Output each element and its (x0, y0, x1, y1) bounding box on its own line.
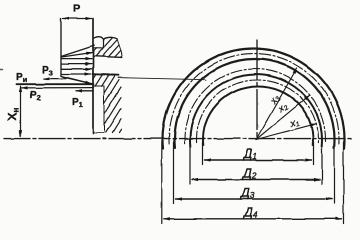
ring circle D2 (heavy) (190, 74, 322, 146)
ring mean circle 1 (dash-dot) (196, 80, 318, 143)
svg-text:Pи: Pи (16, 72, 28, 84)
svg-text:Д4: Д4 (242, 206, 258, 220)
extension line D3 left (173, 142, 175, 204)
lower wall ledge top edge (93, 74, 119, 75)
upper wall block top edge (103, 37, 117, 39)
horizontal centerline (dash-dot) (4, 138, 352, 140)
svg-text:Xн: Xн (6, 107, 21, 120)
pressure diagram upper envelope (61, 46, 94, 57)
dimension line Xn (20, 86, 22, 136)
ring circle D3 (heavy) (175, 59, 335, 148)
svg-text:Д3: Д3 (239, 186, 255, 200)
pressure arrow 5 (62, 73, 91, 75)
svg-text:Д2: Д2 (241, 167, 257, 181)
level line from wall to rings (118, 78, 206, 80)
force arrow P3 (44, 78, 67, 80)
ring circle D1 (inner, heavy) (203, 87, 313, 146)
radius arrow x2 (256, 95, 310, 139)
radius arrow x3 (256, 68, 297, 140)
extension line D2 right (321, 142, 323, 184)
lower wall bore bottom (93, 132, 104, 134)
radius arrow x1 (256, 124, 316, 140)
upper wall block bottom edge (93, 56, 122, 57)
dimension line D1 (205, 159, 312, 161)
pressure arrow 1 (slanted top) (62, 53, 93, 58)
dimension line D2 (192, 179, 320, 181)
lower wall hatching (93, 75, 121, 132)
force arrow P2 (22, 87, 94, 89)
upper wall block hatching (93, 38, 122, 58)
extension line D4 right (343, 142, 345, 224)
vertical centerline of rings (dash-dot) (256, 40, 258, 140)
extension line D1 right (313, 142, 315, 165)
pressure diagram lower envelope (61, 76, 94, 84)
extension line left of P dimension / left edge of pressure diagram (60, 19, 62, 77)
pressure arrow 4 (62, 68, 92, 70)
dimension line D3 (176, 198, 333, 200)
lower wall bore top edge (93, 85, 104, 87)
scan mark left edge upper (0, 69, 3, 71)
extension line D2 left (189, 142, 191, 184)
pressure arrow 2 (62, 58, 92, 60)
extension line right of P dimension / joint interface line (92, 19, 94, 134)
upper wall lip top edge (93, 37, 103, 40)
extension line D3 right (334, 142, 336, 204)
lower wall bore right edge (103, 86, 105, 133)
force arrow P1 (76, 90, 93, 92)
svg-text:Д1: Д1 (242, 147, 257, 161)
svg-text:P1: P1 (72, 97, 84, 109)
dimension line P (63, 18, 92, 20)
ring mean circle 2 (dash-dot) (185, 69, 326, 143)
svg-text:P: P (73, 3, 80, 15)
svg-text:P3: P3 (42, 65, 53, 77)
ring mean circle 3 (dash-dot) (169, 54, 339, 144)
upper wall block right edge (117, 39, 123, 56)
extension line D4 left (161, 142, 163, 224)
upper wall lip right edge (103, 39, 105, 48)
svg-text:P2: P2 (30, 90, 41, 102)
dimension line D4 (164, 218, 342, 220)
pressure arrow 3 (62, 63, 92, 65)
upper wall lip bottom edge (93, 47, 104, 49)
force line Pn (17, 83, 94, 85)
pressure arrow 6 (slanted bottom) (63, 77, 91, 84)
extension line D1 left (202, 142, 204, 165)
ring circle D4 (outer, heavy) (163, 49, 345, 150)
